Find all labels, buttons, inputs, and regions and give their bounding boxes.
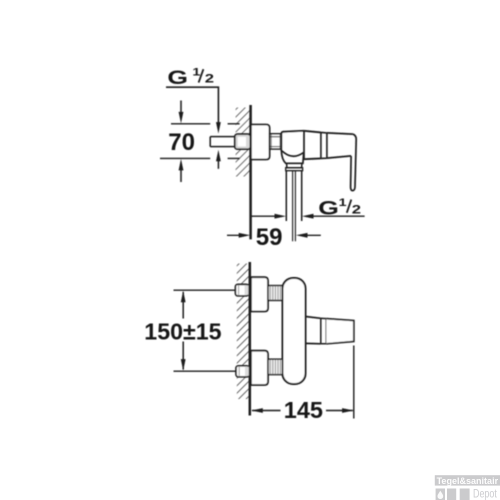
svg-text:Tegel&sanitair: Tegel&sanitair bbox=[437, 475, 499, 486]
nipple pipe lines bbox=[270, 137, 282, 147]
escutcheon flange (top figure) bbox=[251, 125, 270, 160]
cartridge bump bbox=[306, 317, 321, 344]
svg-text:1: 1 bbox=[339, 196, 347, 209]
label G1/2 top fraction slash bbox=[199, 69, 204, 82]
outlet nut bbox=[287, 163, 302, 167]
svg-text:Depot: Depot bbox=[473, 489, 497, 500]
upper escutcheon flange bbox=[251, 277, 268, 311]
dim 150 line upper segment + arrow bbox=[182, 292, 184, 319]
handle cap bbox=[327, 133, 353, 158]
dim 70 bottom extension line bbox=[160, 157, 240, 159]
outlet pipe (G1/2 down) bbox=[286, 171, 301, 221]
lever handle bbox=[351, 134, 357, 191]
dim 59 left arrow bbox=[227, 234, 244, 236]
leader arrowhead down at pipe top bbox=[216, 122, 221, 134]
dim 145 line + left arrow bbox=[251, 408, 262, 413]
watermark square 1 bbox=[436, 489, 445, 500]
wall hatching (bottom figure) bbox=[237, 264, 249, 400]
watermark square 3 bbox=[460, 489, 470, 500]
lower union nut bbox=[236, 366, 249, 377]
label G1/2 top text bbox=[167, 65, 214, 88]
union nut at wall (top figure) bbox=[235, 134, 251, 149]
label G1/2 outlet text bbox=[318, 196, 361, 219]
outlet pipe inner lines bbox=[293, 171, 296, 242]
wall line (top figure) bbox=[249, 105, 252, 239]
outlet ring bbox=[286, 168, 303, 171]
watermark band bbox=[435, 475, 500, 485]
dim 70 lower arrow (up) bbox=[179, 159, 184, 171]
svg-text:59: 59 bbox=[256, 224, 283, 251]
svg-text:G: G bbox=[318, 197, 339, 219]
wall hatching (top figure) bbox=[236, 108, 250, 177]
lower threaded connector bbox=[268, 359, 283, 374]
body/cartridge junction bbox=[303, 131, 305, 159]
handle cap (top view) bbox=[326, 319, 354, 344]
svg-text:1: 1 bbox=[192, 65, 200, 78]
outlet boss under body bbox=[281, 151, 303, 164]
upper threaded connector bbox=[268, 286, 283, 301]
G1/2 outlet arrows row bbox=[251, 215, 279, 217]
supply pipe stub bbox=[210, 137, 235, 147]
svg-text:2: 2 bbox=[205, 73, 214, 86]
watermark droplet bbox=[438, 491, 444, 499]
mixer body capsule bbox=[283, 278, 306, 384]
dim 150 bottom extension line bbox=[174, 370, 237, 372]
svg-text:70: 70 bbox=[168, 129, 195, 156]
connector nipple bbox=[270, 134, 282, 149]
cartridge housing bbox=[304, 131, 321, 159]
valve body (top figure) bbox=[281, 131, 304, 151]
upper union nut bbox=[235, 284, 248, 295]
svg-text:145: 145 bbox=[284, 397, 323, 423]
dim 70 top extension line bbox=[171, 123, 240, 125]
dim 59 right arrow bbox=[296, 233, 308, 238]
dim 145 extension line bbox=[353, 346, 355, 419]
dim 145 right arrow bbox=[326, 410, 353, 412]
watermark square 2 bbox=[447, 489, 456, 500]
ring bbox=[321, 132, 327, 158]
dim 150 line lower segment + arrow bbox=[182, 342, 184, 370]
label G1/2 outlet fraction slash bbox=[347, 200, 352, 213]
up arrow at pipe bottom (G1/2 ref) bbox=[216, 150, 221, 162]
svg-text:150±15: 150±15 bbox=[144, 319, 221, 345]
svg-text:G: G bbox=[167, 66, 188, 88]
svg-text:2: 2 bbox=[352, 204, 361, 217]
bump ring bbox=[321, 318, 327, 344]
wall line (bottom figure) bbox=[249, 262, 252, 416]
dim 70 upper arrow (down) bbox=[180, 101, 182, 117]
body internal curve bbox=[281, 150, 303, 156]
lower escutcheon flange bbox=[251, 351, 268, 385]
leader from G1/2 top bbox=[166, 87, 218, 125]
dim 150 top extension line bbox=[174, 289, 236, 291]
